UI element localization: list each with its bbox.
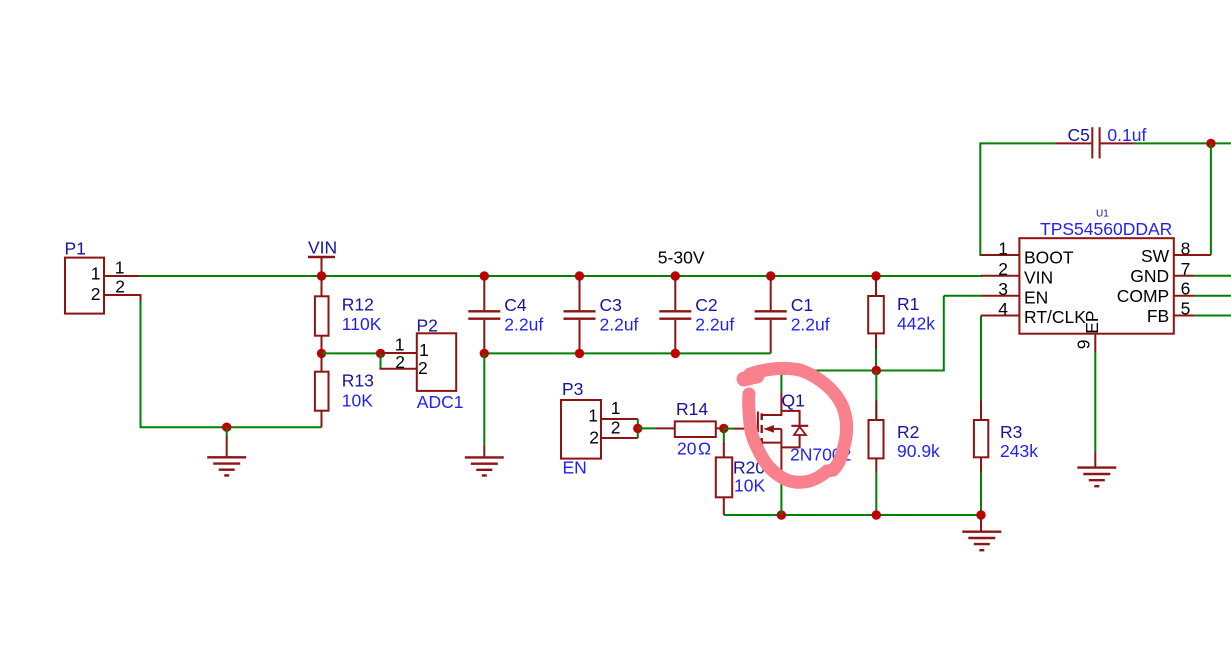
junction C3 bottom [575,349,584,358]
svg-text:Ω: Ω [698,439,711,459]
svg-text:2: 2 [395,352,405,372]
svg-text:0.1uf: 0.1uf [1107,125,1146,145]
junction C4 bottom [480,349,489,358]
svg-text:3: 3 [998,279,1008,299]
junction C5/SW [1206,139,1215,148]
svg-text:SW: SW [1141,246,1170,266]
junction VIN rail / R12 [317,271,326,280]
resistor R12 [315,276,382,353]
P3 pin 1 lead [601,398,638,419]
U1 pin 8 SW [1141,239,1211,267]
wire BOOT column [979,143,981,256]
P1 pin 1 lead [104,257,140,277]
capacitor C2 [659,276,734,353]
svg-text:2: 2 [418,358,428,378]
wire EN pin to column [944,295,982,297]
junction ground rail [222,423,231,432]
wire C5 left [979,142,1055,144]
svg-text:1: 1 [611,398,621,418]
svg-text:C5: C5 [1068,125,1090,145]
annotation pink blob [744,376,757,379]
svg-text:2: 2 [998,259,1008,279]
svg-text:7: 7 [1181,259,1191,279]
svg-text:ADC1: ADC1 [417,392,464,412]
junction C2 bottom [671,349,680,358]
ground (EP) [1077,452,1116,486]
svg-text:C4: C4 [504,295,527,315]
junction R3 / rail / ground [976,510,985,519]
svg-text:P3: P3 [562,379,583,399]
junction R12/R13 [317,349,326,358]
wire P3 to R14 [638,427,656,429]
resistor R2 [869,371,941,473]
wire R3 bottom [980,472,982,515]
junction Q1 source / rail [777,510,786,519]
wire EP to ground [1094,352,1096,452]
svg-text:2.2uf: 2.2uf [791,314,830,334]
svg-text:6: 6 [1181,279,1191,299]
wire GND pin exit [1195,275,1231,277]
svg-text:RT/CLK: RT/CLK [1024,307,1086,327]
svg-text:90.9k: 90.9k [897,441,940,461]
svg-text:20: 20 [677,439,697,459]
U1 pin 7 GND [1130,259,1194,286]
U1 pin 4 RT/CLK [981,299,1086,327]
wire EN node row [781,370,943,372]
svg-text:VIN: VIN [1024,267,1053,287]
junction C2 top [671,271,680,280]
svg-text:4: 4 [998,299,1008,319]
svg-text:2.2uf: 2.2uf [600,314,639,334]
capacitor C5 [1055,125,1146,158]
wire P3 pins joined [637,419,639,438]
svg-text:442k: 442k [897,314,935,334]
U1 pin 1 BOOT [981,238,1074,267]
svg-text:R12: R12 [342,295,374,315]
wire C4 to ground [483,353,485,444]
resistor R3 [974,316,1038,473]
wire capacitor bottom rail [484,352,770,354]
junction R1 top [871,271,880,280]
svg-text:10K: 10K [734,476,765,496]
resistor R14 [656,399,724,459]
svg-text:C1: C1 [791,295,813,315]
diode Q1 body [781,411,808,448]
svg-text:C3: C3 [600,295,622,315]
wire SW column [1210,143,1212,255]
wire R1 bottom [875,349,877,371]
capacitor C3 [564,276,639,353]
U1 pin 5 FB [1147,299,1195,327]
svg-text:EN: EN [563,458,587,478]
junction C4 top [480,271,489,280]
connector P2 [380,316,464,413]
svg-text:VIN: VIN [308,238,337,258]
svg-text:U1: U1 [1096,209,1109,220]
U1 pin 2 VIN [981,259,1053,288]
junction C1 top [766,271,775,280]
junction R1/R2/EN [872,366,881,375]
P1 pin 2 lead [104,276,141,302]
capacitor C1 [755,276,830,353]
svg-text:9: 9 [1074,340,1094,350]
wire EN vertical [943,296,945,372]
svg-text:C2: C2 [695,295,717,315]
wire Q1 source to rail [780,475,782,515]
power port VIN [308,238,337,277]
wire Q1 drain from EN row [780,371,782,394]
capacitor C4 [468,276,543,353]
svg-text:1: 1 [115,257,125,277]
wire COMP pin exit [1195,295,1231,297]
U1 pin 3 EN [981,279,1048,307]
wire R2 bottom [875,472,877,515]
ground (P1/R13) [207,427,246,475]
ground (bottom rail) [962,515,1001,550]
svg-text:2.2uf: 2.2uf [504,314,543,334]
svg-text:1: 1 [91,263,101,283]
svg-text:R1: R1 [897,294,919,314]
junction R14/R20/gate [719,424,728,433]
svg-text:COMP: COMP [1117,286,1170,306]
svg-text:EN: EN [1024,287,1048,307]
svg-text:GND: GND [1130,266,1169,286]
ground (C4) [465,445,504,476]
annotation pink circle [749,368,847,482]
svg-text:2: 2 [611,418,621,438]
svg-text:FB: FB [1147,306,1169,326]
junction R2 / rail [872,510,881,519]
svg-text:P1: P1 [65,238,86,258]
wire R14 junction to gate [724,428,734,430]
svg-text:EP: EP [1082,310,1102,333]
svg-text:P2: P2 [417,316,438,336]
junction P3 [633,424,642,433]
wire VIN rail [139,275,982,277]
svg-text:5: 5 [1181,299,1191,319]
junction P2 branch [376,349,385,358]
svg-text:Q1: Q1 [782,391,805,411]
wire C5 right [1134,142,1231,144]
svg-text:TPS54560DDAR: TPS54560DDAR [1040,219,1172,239]
resistor R13 [315,353,374,427]
svg-text:2.2uf: 2.2uf [695,314,734,334]
svg-text:R2: R2 [897,422,919,442]
wire FB pin exit [1195,315,1231,317]
svg-text:1: 1 [998,238,1008,258]
connector P1 [65,238,105,313]
svg-text:2: 2 [589,428,599,448]
svg-text:110K: 110K [342,314,382,334]
connector P3 [561,379,601,478]
svg-text:8: 8 [1181,239,1191,259]
resistor R20 [716,428,766,515]
P3 pin 2 lead [601,418,638,439]
svg-text:BOOT: BOOT [1024,247,1074,267]
svg-text:10K: 10K [342,391,373,411]
svg-text:2: 2 [115,276,125,296]
svg-text:1: 1 [588,406,598,426]
IC U1 TPS54560DDAR [1019,209,1173,334]
svg-text:R13: R13 [342,371,374,391]
U1 pin 9 EP [1074,310,1102,352]
wire R12/R13 to P2 [322,352,381,354]
resistor R1 [868,276,935,349]
svg-text:R14: R14 [676,399,708,419]
transistor Q1 2N7002 [734,391,851,476]
U1 pin 6 COMP [1117,279,1195,307]
wire bottom ground rail [724,514,981,516]
svg-text:R3: R3 [1000,422,1022,442]
svg-text:2: 2 [91,284,101,304]
svg-text:243k: 243k [1000,441,1038,461]
junction C3 top [575,271,584,280]
wire P1 pin2 to ground rail [141,301,322,427]
svg-text:5-30V: 5-30V [658,248,705,268]
